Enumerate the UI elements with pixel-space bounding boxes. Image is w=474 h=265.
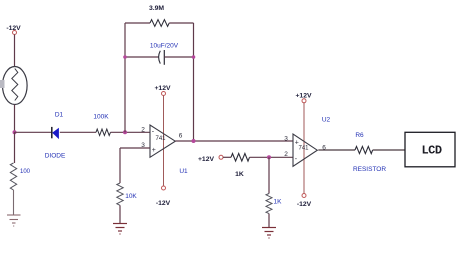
resistor 3.9M (150, 20, 169, 27)
svg-text:2: 2 (141, 126, 145, 133)
power +12V label mid (198, 155, 223, 163)
power +12V label for U1 (154, 85, 171, 96)
op-amp U1 741 (150, 125, 175, 157)
svg-text:LCD: LCD (421, 144, 441, 158)
wire feedback left vertical (124, 23, 126, 132)
svg-text:10K: 10K (125, 193, 137, 200)
resistor 1K (horizontal) (231, 154, 250, 162)
svg-text:6: 6 (179, 133, 183, 140)
wire feedback top left (125, 22, 150, 24)
wire capacitor branch right (164, 56, 193, 58)
svg-text:3.9M: 3.9M (149, 5, 164, 12)
svg-text:741: 741 (299, 146, 310, 152)
wire U1 pin 3 down to 10K (119, 148, 121, 183)
svg-text:100: 100 (20, 169, 31, 175)
node C junction dot (feedback/output) (192, 139, 196, 143)
op-amp U2 741 (293, 134, 317, 166)
wire 100K to U1 pin 2 (through node B) (111, 131, 151, 133)
wire from photoresistor to node A (14, 105, 16, 133)
wire R6 to LCD (373, 149, 405, 151)
svg-text:D1: D1 (55, 112, 64, 119)
photoresistor LDR (circle with zigzag) (0, 67, 27, 105)
svg-text:R6: R6 (355, 132, 364, 139)
node D junction dot (267, 155, 271, 159)
svg-text:100K: 100K (93, 114, 109, 121)
wire 100 to ground (13, 190, 15, 215)
wire U1 V+ pin 7 (163, 96, 165, 142)
wire from -12V to photoresistor (14, 35, 16, 68)
junction dot cap right (192, 55, 196, 59)
wire node D down to 1K vertical (268, 157, 270, 193)
svg-text:DIODE: DIODE (45, 153, 66, 160)
wire +12V circle to 1K (223, 156, 231, 158)
wire feedback right vertical (193, 23, 195, 141)
svg-text:-12V: -12V (297, 201, 312, 208)
ground (mid 1K) (262, 228, 276, 239)
wire 1K vertical to ground (268, 214, 270, 228)
svg-text:+12V: +12V (154, 85, 171, 92)
svg-text:10uF/20V: 10uF/20V (150, 43, 179, 50)
ground (U1 10K) (113, 224, 127, 235)
wire U1 V- pin 4 (163, 141, 165, 186)
svg-text:+: + (152, 147, 156, 154)
wire capacitor branch left (125, 56, 159, 58)
wire U1 pin 3 horizontal (120, 147, 150, 149)
svg-text:U2: U2 (322, 117, 331, 124)
resistor R6 (355, 146, 373, 153)
svg-text:RESISTOR: RESISTOR (353, 166, 386, 173)
wire U1 output to U2 pin 3 (175, 140, 293, 142)
node A junction dot (13, 130, 17, 134)
node B junction dot (123, 130, 127, 134)
power -12V label top-left (6, 25, 21, 35)
LCD block (405, 132, 455, 167)
power -12V label for U1 (156, 186, 171, 207)
svg-text:U1: U1 (179, 168, 188, 175)
diode D1 (52, 127, 59, 139)
svg-text:3: 3 (284, 135, 288, 142)
svg-text:741: 741 (156, 136, 167, 142)
wire node A down to 100 (14, 132, 16, 163)
wire U2 V+ pin 7 (303, 103, 305, 150)
ground (left 100) (7, 215, 21, 226)
wire node A to diode D1 cathode (15, 131, 53, 133)
wire 10K to ground (119, 205, 121, 223)
wire U2 output to R6 (318, 149, 355, 151)
svg-text:+12V: +12V (198, 156, 215, 163)
junction dot cap left (123, 55, 127, 59)
wire U2 V- pin 4 (303, 150, 305, 194)
svg-text:1K: 1K (235, 171, 244, 178)
svg-text:1K: 1K (274, 199, 283, 206)
wire 1K to U2 pin 2 (250, 156, 294, 158)
wire diode to 100K (60, 131, 96, 133)
power -12V label for U2 (297, 194, 312, 209)
power +12V label for U2 (295, 93, 312, 103)
svg-text:+: + (295, 140, 299, 147)
resistor 10K (117, 183, 123, 205)
wire feedback top right (169, 22, 193, 24)
resistor 100 (left, vertical) (10, 163, 16, 190)
svg-text:2: 2 (284, 151, 288, 158)
capacitor C1 10uF/20V (159, 50, 165, 65)
resistor 1K (vertical) (266, 194, 272, 214)
resistor 100K (96, 129, 111, 135)
svg-text:-12V: -12V (156, 200, 171, 207)
